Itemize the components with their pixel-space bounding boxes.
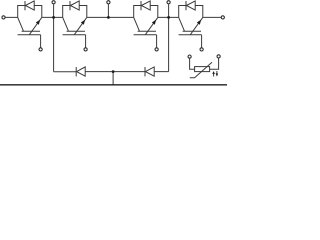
transistor T2 gate terminal: [84, 48, 87, 51]
transistor T1 gate lead: [40, 35, 42, 48]
diode D4: [186, 1, 195, 10]
wire main bus y=17 segments: [5, 16, 221, 18]
node terminal 3 (rail 2): [107, 1, 110, 19]
transistor T4 gate lead: [201, 35, 203, 48]
baseplate ground line: [0, 84, 227, 85]
transistor T3 IGBT: [134, 17, 158, 34]
node terminal 2 (rail 1): [52, 1, 55, 72]
transistor T3 gate lead: [156, 35, 158, 48]
transistor T1 IGBT: [18, 17, 42, 34]
diode D6: [145, 67, 154, 77]
thermistor R1 terminal right: [210, 55, 221, 69]
node junction bottom: [112, 70, 115, 73]
node terminal 5 (right): [221, 16, 224, 19]
diode D3: [141, 1, 150, 10]
transistor T4 IGBT: [179, 17, 203, 34]
transistor T3 gate terminal: [155, 48, 158, 51]
transistor T2 IGBT: [63, 17, 87, 34]
diode D5: [76, 67, 85, 77]
diode D3 freewheel loop wire: [134, 6, 158, 18]
node terminal 4 (rail 3): [167, 1, 170, 72]
diode D2 freewheel loop wire: [63, 6, 87, 18]
thermistor R1 characteristic stroke: [190, 62, 212, 77]
thermistor R1 body: [195, 67, 210, 72]
node terminal 1 (left): [2, 16, 5, 19]
thermistor R1 NTC arrows: [212, 71, 218, 77]
diode D4 freewheel loop wire: [179, 6, 203, 18]
diode D1 freewheel loop wire: [18, 6, 42, 18]
transistor T2 gate lead: [85, 35, 87, 48]
transistor T4 gate terminal: [200, 48, 203, 51]
diode D1: [25, 1, 34, 10]
thermistor R1 terminal left: [188, 55, 195, 69]
transistor T1 gate terminal: [39, 48, 42, 51]
wire bottom row: [54, 72, 169, 85]
diode D2: [70, 1, 79, 10]
